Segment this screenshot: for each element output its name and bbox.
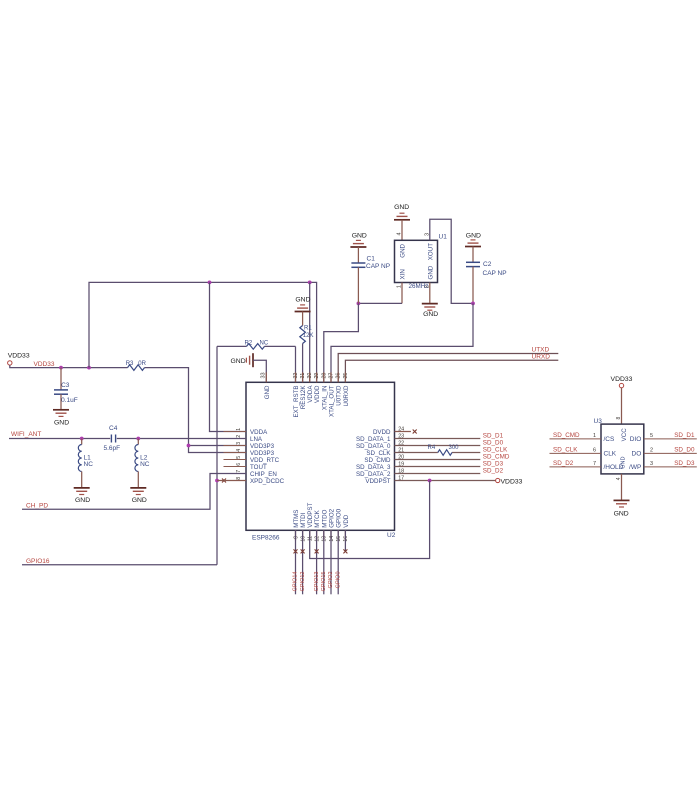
svg-text:MTDO: MTDO xyxy=(321,509,328,527)
node L1 junction xyxy=(80,437,84,441)
wire SD_D2 xyxy=(395,473,481,475)
svg-text:GND: GND xyxy=(295,297,310,304)
svg-text:U1: U1 xyxy=(439,233,448,240)
wire crystal pin 4 stem xyxy=(401,220,403,241)
svg-text:SD_D3: SD_D3 xyxy=(674,460,695,467)
node L2 junction xyxy=(136,437,140,441)
svg-text:8: 8 xyxy=(616,417,622,420)
no-connect MTMS xyxy=(294,549,298,553)
svg-text:U0RXD: U0RXD xyxy=(343,385,350,407)
svg-text:GND: GND xyxy=(466,232,481,239)
svg-text:VDDPST: VDDPST xyxy=(365,478,390,485)
node XOUT junction xyxy=(471,302,475,306)
svg-text:C4: C4 xyxy=(109,425,118,432)
no-connect VDD xyxy=(343,549,347,553)
svg-text:SD_CMD: SD_CMD xyxy=(483,454,510,461)
wire XTAL_IN route xyxy=(324,303,359,382)
svg-text:SD_DATA_3: SD_DATA_3 xyxy=(356,464,391,471)
svg-text:GPIO0: GPIO0 xyxy=(336,508,343,527)
inductor L1 NC xyxy=(81,439,83,445)
svg-text:SD_DATA_2: SD_DATA_2 xyxy=(356,471,391,478)
wire VDD3P3 upper branch xyxy=(189,445,247,447)
wire SD_CMD xyxy=(395,459,481,461)
wire MTDI GPIO12 xyxy=(302,530,304,594)
svg-text:GPIO13: GPIO13 xyxy=(314,572,320,592)
svg-text:GPIO2: GPIO2 xyxy=(328,572,334,589)
svg-text:VDD33: VDD33 xyxy=(501,479,523,486)
svg-text:14: 14 xyxy=(329,536,335,542)
node VDDA top junction xyxy=(308,281,312,285)
transistor U3 body xyxy=(601,424,644,474)
svg-text:C2: C2 xyxy=(483,261,492,268)
svg-text:5: 5 xyxy=(650,433,653,439)
node XIN junction xyxy=(357,302,361,306)
svg-text:DVDD: DVDD xyxy=(373,429,391,436)
svg-text:33: 33 xyxy=(260,372,266,378)
svg-text:GND: GND xyxy=(428,265,435,279)
no-connect XPD_DCDC xyxy=(222,479,226,483)
svg-text:R2: R2 xyxy=(245,340,253,346)
svg-text:VDD33: VDD33 xyxy=(611,376,633,383)
svg-text:CLK: CLK xyxy=(604,451,617,458)
svg-text:GND: GND xyxy=(394,204,409,211)
svg-text:7: 7 xyxy=(593,461,596,467)
svg-text:9: 9 xyxy=(293,536,299,539)
wire GPIO2 xyxy=(330,530,332,594)
ground GND below L2 xyxy=(130,487,146,489)
svg-text:XPD_DCDC: XPD_DCDC xyxy=(250,478,285,485)
U2 bottom pin stubs xyxy=(295,530,297,540)
svg-text:CH_PD: CH_PD xyxy=(26,503,48,510)
wire crystal pin 2 stem xyxy=(429,283,431,303)
svg-text:SD_CMD: SD_CMD xyxy=(364,457,391,464)
resistor R4 300 xyxy=(438,450,452,456)
svg-text:RES12K: RES12K xyxy=(300,385,307,410)
svg-text:GND: GND xyxy=(75,497,90,504)
svg-text:SD_D1: SD_D1 xyxy=(483,433,504,440)
wire MTMS GPIO14 xyxy=(295,530,297,594)
svg-text:/CS: /CS xyxy=(604,436,616,443)
svg-text:CAP NP: CAP NP xyxy=(483,270,507,277)
wire VDD pin 16 xyxy=(344,530,346,551)
wire GND pin 33 xyxy=(253,360,266,382)
wire VDDPST down rail xyxy=(310,481,430,559)
no-connect MTCK xyxy=(315,549,319,553)
svg-text:GPIO14: GPIO14 xyxy=(293,572,299,592)
svg-text:2: 2 xyxy=(650,447,653,453)
svg-text:XIN: XIN xyxy=(400,269,407,279)
svg-text:7: 7 xyxy=(236,470,242,473)
ground GND below L1 xyxy=(74,487,90,489)
svg-text:EXT_RSTB: EXT_RSTB xyxy=(293,386,300,418)
svg-text:3: 3 xyxy=(236,442,242,445)
svg-text:NC: NC xyxy=(140,461,150,468)
capacitor C2 CAP NP xyxy=(472,247,474,263)
crystal U1 26MHz xyxy=(395,240,438,282)
svg-text:VDD33: VDD33 xyxy=(34,361,55,368)
wire VDDA top pin xyxy=(309,282,311,382)
svg-text:SD_D0: SD_D0 xyxy=(674,447,695,454)
svg-text:SD_DATA_0: SD_DATA_0 xyxy=(356,443,391,450)
svg-text:GPIO15: GPIO15 xyxy=(321,572,327,592)
svg-text:XTAL_IN: XTAL_IN xyxy=(321,386,328,411)
wire XTAL_OUT route xyxy=(331,303,473,382)
svg-text:GND: GND xyxy=(400,243,407,257)
node XPD_DCDC junction xyxy=(215,479,219,483)
svg-text:URXD: URXD xyxy=(532,354,551,361)
wire XPD_DCDC stub xyxy=(217,480,246,482)
svg-text:R1: R1 xyxy=(304,326,312,332)
capacitor C1 CAP NP xyxy=(357,247,359,263)
svg-text:SD_D1: SD_D1 xyxy=(674,432,695,439)
svg-text:0.1uF: 0.1uF xyxy=(61,397,78,404)
svg-text:XOUT: XOUT xyxy=(428,243,435,260)
svg-text:DO: DO xyxy=(632,451,642,458)
wire VDDA to pin 1 xyxy=(210,282,247,431)
wire U3 GND pin 4 xyxy=(621,474,623,500)
svg-text:GND: GND xyxy=(352,232,367,239)
svg-text:GND: GND xyxy=(231,358,246,365)
svg-text:4: 4 xyxy=(397,232,403,235)
wire VDDPST to VDD33 xyxy=(395,480,496,482)
svg-text:ESP8266: ESP8266 xyxy=(252,534,280,541)
wire SD_D0 xyxy=(395,445,481,447)
svg-text:CAP NP: CAP NP xyxy=(366,263,390,270)
svg-text:6: 6 xyxy=(236,463,242,466)
svg-text:SD_D0: SD_D0 xyxy=(483,440,504,447)
svg-text:4: 4 xyxy=(236,449,242,452)
svg-text:U0TXD: U0TXD xyxy=(336,385,343,406)
svg-text:GND: GND xyxy=(264,385,271,399)
svg-text:XTAL_OUT: XTAL_OUT xyxy=(329,385,336,417)
svg-text:DIO: DIO xyxy=(630,436,642,443)
op-amp U2 ESP8266 body xyxy=(246,382,395,530)
svg-text:UTXD: UTXD xyxy=(532,346,550,353)
svg-text:0R: 0R xyxy=(138,361,146,367)
svg-text:VDD3P3: VDD3P3 xyxy=(250,450,275,457)
svg-text:NC: NC xyxy=(84,461,94,468)
svg-text:SD_D3: SD_D3 xyxy=(483,461,504,468)
node VDDPST junction xyxy=(428,479,432,483)
svg-text:SD_D2: SD_D2 xyxy=(483,468,504,475)
svg-text:11: 11 xyxy=(308,536,314,541)
wire XIN node horizontal xyxy=(358,302,402,304)
svg-text:3: 3 xyxy=(650,461,653,467)
svg-text:MTMS: MTMS xyxy=(293,510,300,528)
resistor R2 NC xyxy=(217,345,247,347)
svg-text:10: 10 xyxy=(300,536,306,542)
svg-text:SD_CLK: SD_CLK xyxy=(553,447,578,454)
wire MTDO GPIO15 xyxy=(323,530,325,594)
svg-text:/WP: /WP xyxy=(629,464,641,471)
svg-text:VDD_RTC: VDD_RTC xyxy=(250,457,280,464)
wire GPIO16 xyxy=(22,564,217,566)
svg-text:300: 300 xyxy=(449,445,460,451)
resistor R3 0R xyxy=(128,365,145,371)
node VDDA left junction xyxy=(208,281,212,285)
port VDD33 at VDDPST xyxy=(496,478,500,482)
capacitor C3 0.1uF xyxy=(60,368,62,390)
svg-text:GPIO2: GPIO2 xyxy=(329,508,336,527)
svg-text:NC: NC xyxy=(260,340,269,346)
svg-text:R4: R4 xyxy=(428,445,436,451)
svg-text:TOUT: TOUT xyxy=(250,464,267,471)
svg-text:2: 2 xyxy=(236,435,242,438)
svg-text:VDD3P3: VDD3P3 xyxy=(250,443,275,450)
svg-text:SD_CLK: SD_CLK xyxy=(483,447,508,454)
svg-text:4: 4 xyxy=(616,477,622,480)
svg-text:/HOLD: /HOLD xyxy=(604,464,624,471)
ground GND below U3 xyxy=(614,499,630,501)
wire CH_PD xyxy=(22,474,246,510)
inductor L2 NC xyxy=(137,439,139,445)
wire crystal pin 1 down xyxy=(401,283,403,304)
U2 top pin stubs xyxy=(265,372,267,382)
wire VDD33 rail to VDD3P3 xyxy=(145,368,247,453)
svg-text:VDD: VDD xyxy=(343,514,350,528)
wire RES12K pin xyxy=(302,344,304,383)
svg-text:C3: C3 xyxy=(61,382,70,389)
svg-text:5.6pF: 5.6pF xyxy=(104,445,121,452)
svg-text:U2: U2 xyxy=(387,532,396,539)
svg-text:GND: GND xyxy=(54,420,69,427)
svg-text:CHIP_EN: CHIP_EN xyxy=(250,471,277,478)
svg-text:6: 6 xyxy=(593,447,596,453)
capacitor C4 5.6pF xyxy=(110,435,112,443)
node VDD3P3 junction xyxy=(187,444,191,448)
wire U3 VCC pin 8 xyxy=(621,388,623,424)
node VDDA riser junction xyxy=(87,366,91,370)
svg-text:12K: 12K xyxy=(303,333,314,339)
wire VDDA riser xyxy=(89,282,317,382)
ground GND below C3 xyxy=(53,409,69,411)
wire EXT_RSTB pin xyxy=(295,346,297,382)
ground GND below crystal pin 2 xyxy=(422,303,438,305)
svg-text:1: 1 xyxy=(236,428,242,431)
wire MTCK GPIO13 xyxy=(316,530,318,594)
svg-text:GPIO0: GPIO0 xyxy=(335,572,341,589)
svg-text:VCC: VCC xyxy=(621,428,628,442)
svg-text:U3: U3 xyxy=(594,418,603,425)
svg-text:R3: R3 xyxy=(126,361,134,367)
wire SD_D3 xyxy=(395,466,481,468)
svg-text:GND: GND xyxy=(614,510,629,517)
svg-text:GND: GND xyxy=(132,497,147,504)
wire GPIO16 to XPD_DCDC riser xyxy=(216,346,218,564)
svg-text:VDDD: VDDD xyxy=(314,385,321,403)
svg-text:WIFI_ANT: WIFI_ANT xyxy=(11,431,41,438)
svg-text:GND: GND xyxy=(423,311,438,318)
svg-text:15: 15 xyxy=(336,536,342,542)
svg-text:GPIO12: GPIO12 xyxy=(300,572,306,592)
svg-text:GPIO16: GPIO16 xyxy=(26,558,50,565)
svg-text:MTCK: MTCK xyxy=(314,509,321,527)
no-connect MTDI xyxy=(301,549,305,553)
svg-text:MTDI: MTDI xyxy=(300,512,307,527)
no-connect DVDD xyxy=(395,431,411,433)
svg-text:SD_CMD: SD_CMD xyxy=(553,432,580,439)
svg-text:12: 12 xyxy=(314,536,320,542)
resistor R1 12K xyxy=(302,312,304,326)
svg-text:VDD33: VDD33 xyxy=(8,352,30,359)
svg-text:1: 1 xyxy=(593,433,596,439)
wire U0RXD xyxy=(345,360,558,382)
svg-text:8: 8 xyxy=(236,477,242,480)
wire SD_CLK xyxy=(395,452,438,454)
svg-text:SD_DATA_1: SD_DATA_1 xyxy=(356,436,391,443)
svg-text:5: 5 xyxy=(236,456,242,459)
svg-text:SD_CLK: SD_CLK xyxy=(366,450,391,457)
svg-text:16: 16 xyxy=(343,536,349,542)
wire SD_D1 xyxy=(395,438,481,440)
svg-text:C1: C1 xyxy=(367,256,376,263)
wire GPIO0 xyxy=(337,530,339,594)
node C3 junction xyxy=(59,366,63,370)
wire U0TXD xyxy=(338,354,558,383)
wire crystal pin 3 loop to C2 node xyxy=(430,219,473,303)
svg-text:SD_D2: SD_D2 xyxy=(553,460,574,467)
svg-text:13: 13 xyxy=(322,536,328,542)
wire WIFI_ANT xyxy=(9,438,110,440)
svg-text:VDDA: VDDA xyxy=(250,429,268,436)
svg-text:LNA: LNA xyxy=(250,436,263,443)
